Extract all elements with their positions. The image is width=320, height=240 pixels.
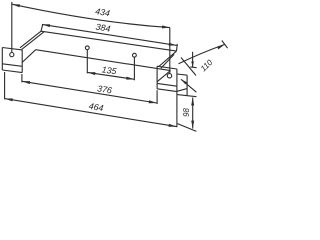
svg-text:434: 434	[95, 6, 111, 18]
svg-text:110: 110	[199, 58, 215, 74]
svg-text:98: 98	[182, 108, 191, 117]
svg-text:135: 135	[101, 64, 117, 76]
svg-text:464: 464	[88, 101, 104, 113]
svg-text:384: 384	[95, 22, 111, 34]
